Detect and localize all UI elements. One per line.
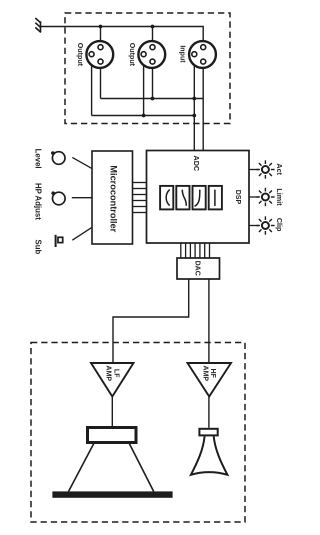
svg-text:DSP: DSP [234, 190, 241, 205]
woofer baffle bar [52, 491, 172, 497]
dashed enclosure: connector panel [65, 13, 230, 124]
XLR connector 3 (Input) [189, 41, 216, 68]
EQ block 2 (shelf curve) [176, 186, 189, 210]
svg-text:Act: Act [275, 163, 284, 175]
EQ block 4 (flat response) [209, 186, 222, 210]
bus: microcontroller to DSP (6 lines) [133, 183, 147, 213]
wire: LF amp to woofer [111, 397, 113, 427]
wire: XLR1 top pin drop [100, 27, 102, 45]
wire: XLR2 bottom pin to H1 [152, 64, 154, 99]
svg-text:Sub: Sub [33, 240, 42, 255]
wire: DAC right output to HF amp [208, 279, 210, 363]
wire: XLR2 top pin drop [152, 27, 154, 45]
potentiometer: Level knob [51, 151, 65, 164]
svg-text:DAC: DAC [194, 261, 201, 276]
svg-text:Output: Output [128, 43, 136, 67]
svg-text:Limit: Limit [275, 188, 284, 206]
svg-text:AMP: AMP [105, 366, 112, 382]
wire: DSP to Clip LED [249, 225, 259, 227]
wire: XLR2 left pin to H3 [143, 56, 145, 116]
DAC box [177, 258, 220, 279]
junction H3/XLR2 left [142, 114, 146, 118]
label LF AMP [105, 366, 120, 382]
DSP / ADC main box [147, 151, 250, 244]
label HF AMP [202, 366, 217, 382]
wire: Level knob to microcontroller [72, 157, 92, 168]
EQ block 1 (bell curve) [160, 186, 173, 210]
XLR connector 1 (Output) [86, 41, 113, 68]
svg-text:Level: Level [33, 149, 42, 169]
wire: HP Adjust knob to microcontroller [72, 197, 92, 199]
svg-text:Clip: Clip [275, 218, 284, 232]
XLR connector 2 (Output) [138, 41, 165, 68]
svg-text:HP Adjust: HP Adjust [33, 183, 42, 220]
horn driver [199, 429, 217, 436]
svg-text:HF: HF [209, 369, 216, 379]
junction at XLR1 top [99, 25, 103, 29]
horn flare [191, 436, 228, 475]
bus: DSP to DAC (7 lines) [181, 243, 210, 258]
wire: Sub switch to microcontroller [72, 227, 92, 240]
chassis ground [35, 18, 41, 32]
wire: XLR1 bottom pin to H1 [100, 64, 102, 99]
svg-text:LF: LF [112, 369, 119, 378]
junction H1/XLR3 left wire [192, 97, 196, 101]
svg-text:Microcontroller: Microcontroller [108, 165, 118, 232]
LED Clip [256, 216, 274, 234]
wire: DSP to Limit LED [249, 196, 259, 198]
wire: DAC left output to LF amp [113, 279, 189, 363]
wire: XLR1 left pin to H3 [91, 56, 93, 116]
junction at XLR2 top [151, 25, 155, 29]
svg-text:AMP: AMP [202, 366, 209, 382]
wire: ground bus to input XLR top pin [41, 27, 204, 45]
junction H1/XLR2 bottom [151, 97, 155, 101]
woofer cone left [69, 444, 94, 492]
microcontroller box U1 [92, 151, 133, 244]
woofer cone right [129, 444, 153, 492]
LED Act [256, 160, 274, 178]
dashed enclosure: speaker cabinet [31, 343, 245, 523]
wire: DSP to Act LED [249, 169, 259, 171]
LF amplifier triangle [91, 363, 134, 397]
junction H3/XLR3 left wire [192, 114, 196, 118]
svg-text:Input: Input [179, 45, 187, 63]
potentiometer: HP Adjust knob [51, 191, 65, 204]
svg-text:Output: Output [76, 43, 84, 67]
wire: XLR3 bottom pin to ADC [202, 64, 204, 151]
wire H3: left-pins bus [92, 115, 195, 117]
wire: XLR3 left pin to ADC [193, 56, 195, 151]
woofer magnet [88, 428, 137, 443]
EQ block 3 (filter slope) [193, 186, 206, 210]
LED Limit [256, 188, 274, 206]
svg-text:ADC: ADC [192, 156, 201, 172]
HF amplifier triangle [188, 363, 232, 397]
wire H1: bottom-pins bus [101, 98, 204, 100]
switch: Sub [55, 235, 63, 247]
wire: HF amp to horn [208, 397, 210, 428]
